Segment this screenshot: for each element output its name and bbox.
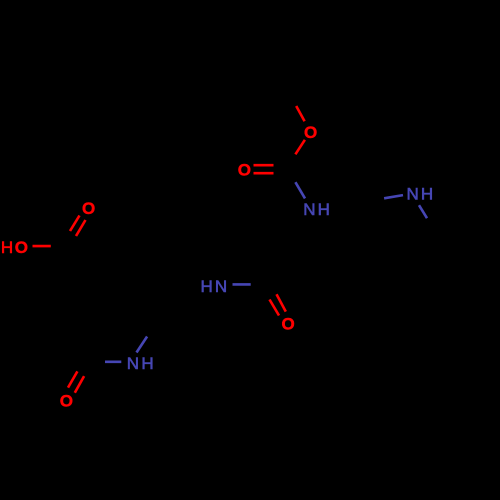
- wire O-C(=O) bond (O half): [295, 140, 305, 155]
- svg-text:H: H: [141, 354, 153, 373]
- svg-text:N: N: [215, 277, 227, 296]
- wire CH3-O bond (O half): [296, 106, 304, 121]
- wire amide C=O double bond (O half, line 2): [270, 300, 280, 316]
- svg-text:N: N: [407, 185, 419, 204]
- wire HO-C bond (O half): [33, 245, 51, 248]
- wire carbamate C=O double bond (O half, line 1): [254, 164, 274, 167]
- carboxylic acid OH label: [1, 238, 28, 257]
- wire lactam C=O double bond (O half, line 2): [75, 376, 84, 393]
- lactam NH label: [127, 354, 154, 373]
- svg-text:N: N: [303, 200, 315, 219]
- amide HN label: [201, 277, 228, 296]
- svg-text:O: O: [238, 161, 251, 180]
- svg-text:O: O: [304, 123, 317, 142]
- svg-text:O: O: [60, 392, 73, 411]
- wire amide N-C bond (N half): [233, 283, 251, 286]
- wire indole N-C bond right (N half): [419, 205, 427, 218]
- wire carboxyl C=O double bond (O half, line 1): [70, 216, 80, 232]
- svg-text:N: N: [127, 354, 139, 373]
- svg-text:H: H: [421, 185, 433, 204]
- carbamate NH label: [303, 200, 330, 219]
- wire carbamate C=O double bond (O half, line 2): [254, 172, 274, 175]
- wire indole C-N bond left (N half): [384, 195, 403, 198]
- wire amide C=O double bond (O half, line 1): [277, 294, 286, 311]
- svg-text:O: O: [15, 238, 28, 257]
- indole NH label: [407, 185, 434, 204]
- wire carbamate C-N bond (N half): [295, 182, 305, 198]
- svg-text:H: H: [201, 277, 213, 296]
- svg-text:H: H: [1, 238, 13, 257]
- wire lactam N-C6 ring bond (N half): [137, 337, 148, 353]
- wire carboxyl C=O double bond (O half, line 2): [76, 220, 86, 236]
- svg-text:H: H: [318, 200, 330, 219]
- svg-text:O: O: [82, 199, 95, 218]
- wire lactam C=O double bond (O half, line 1): [68, 371, 77, 387]
- wire lactam N-C(O) bond (N half): [105, 360, 121, 363]
- svg-text:O: O: [282, 314, 295, 333]
